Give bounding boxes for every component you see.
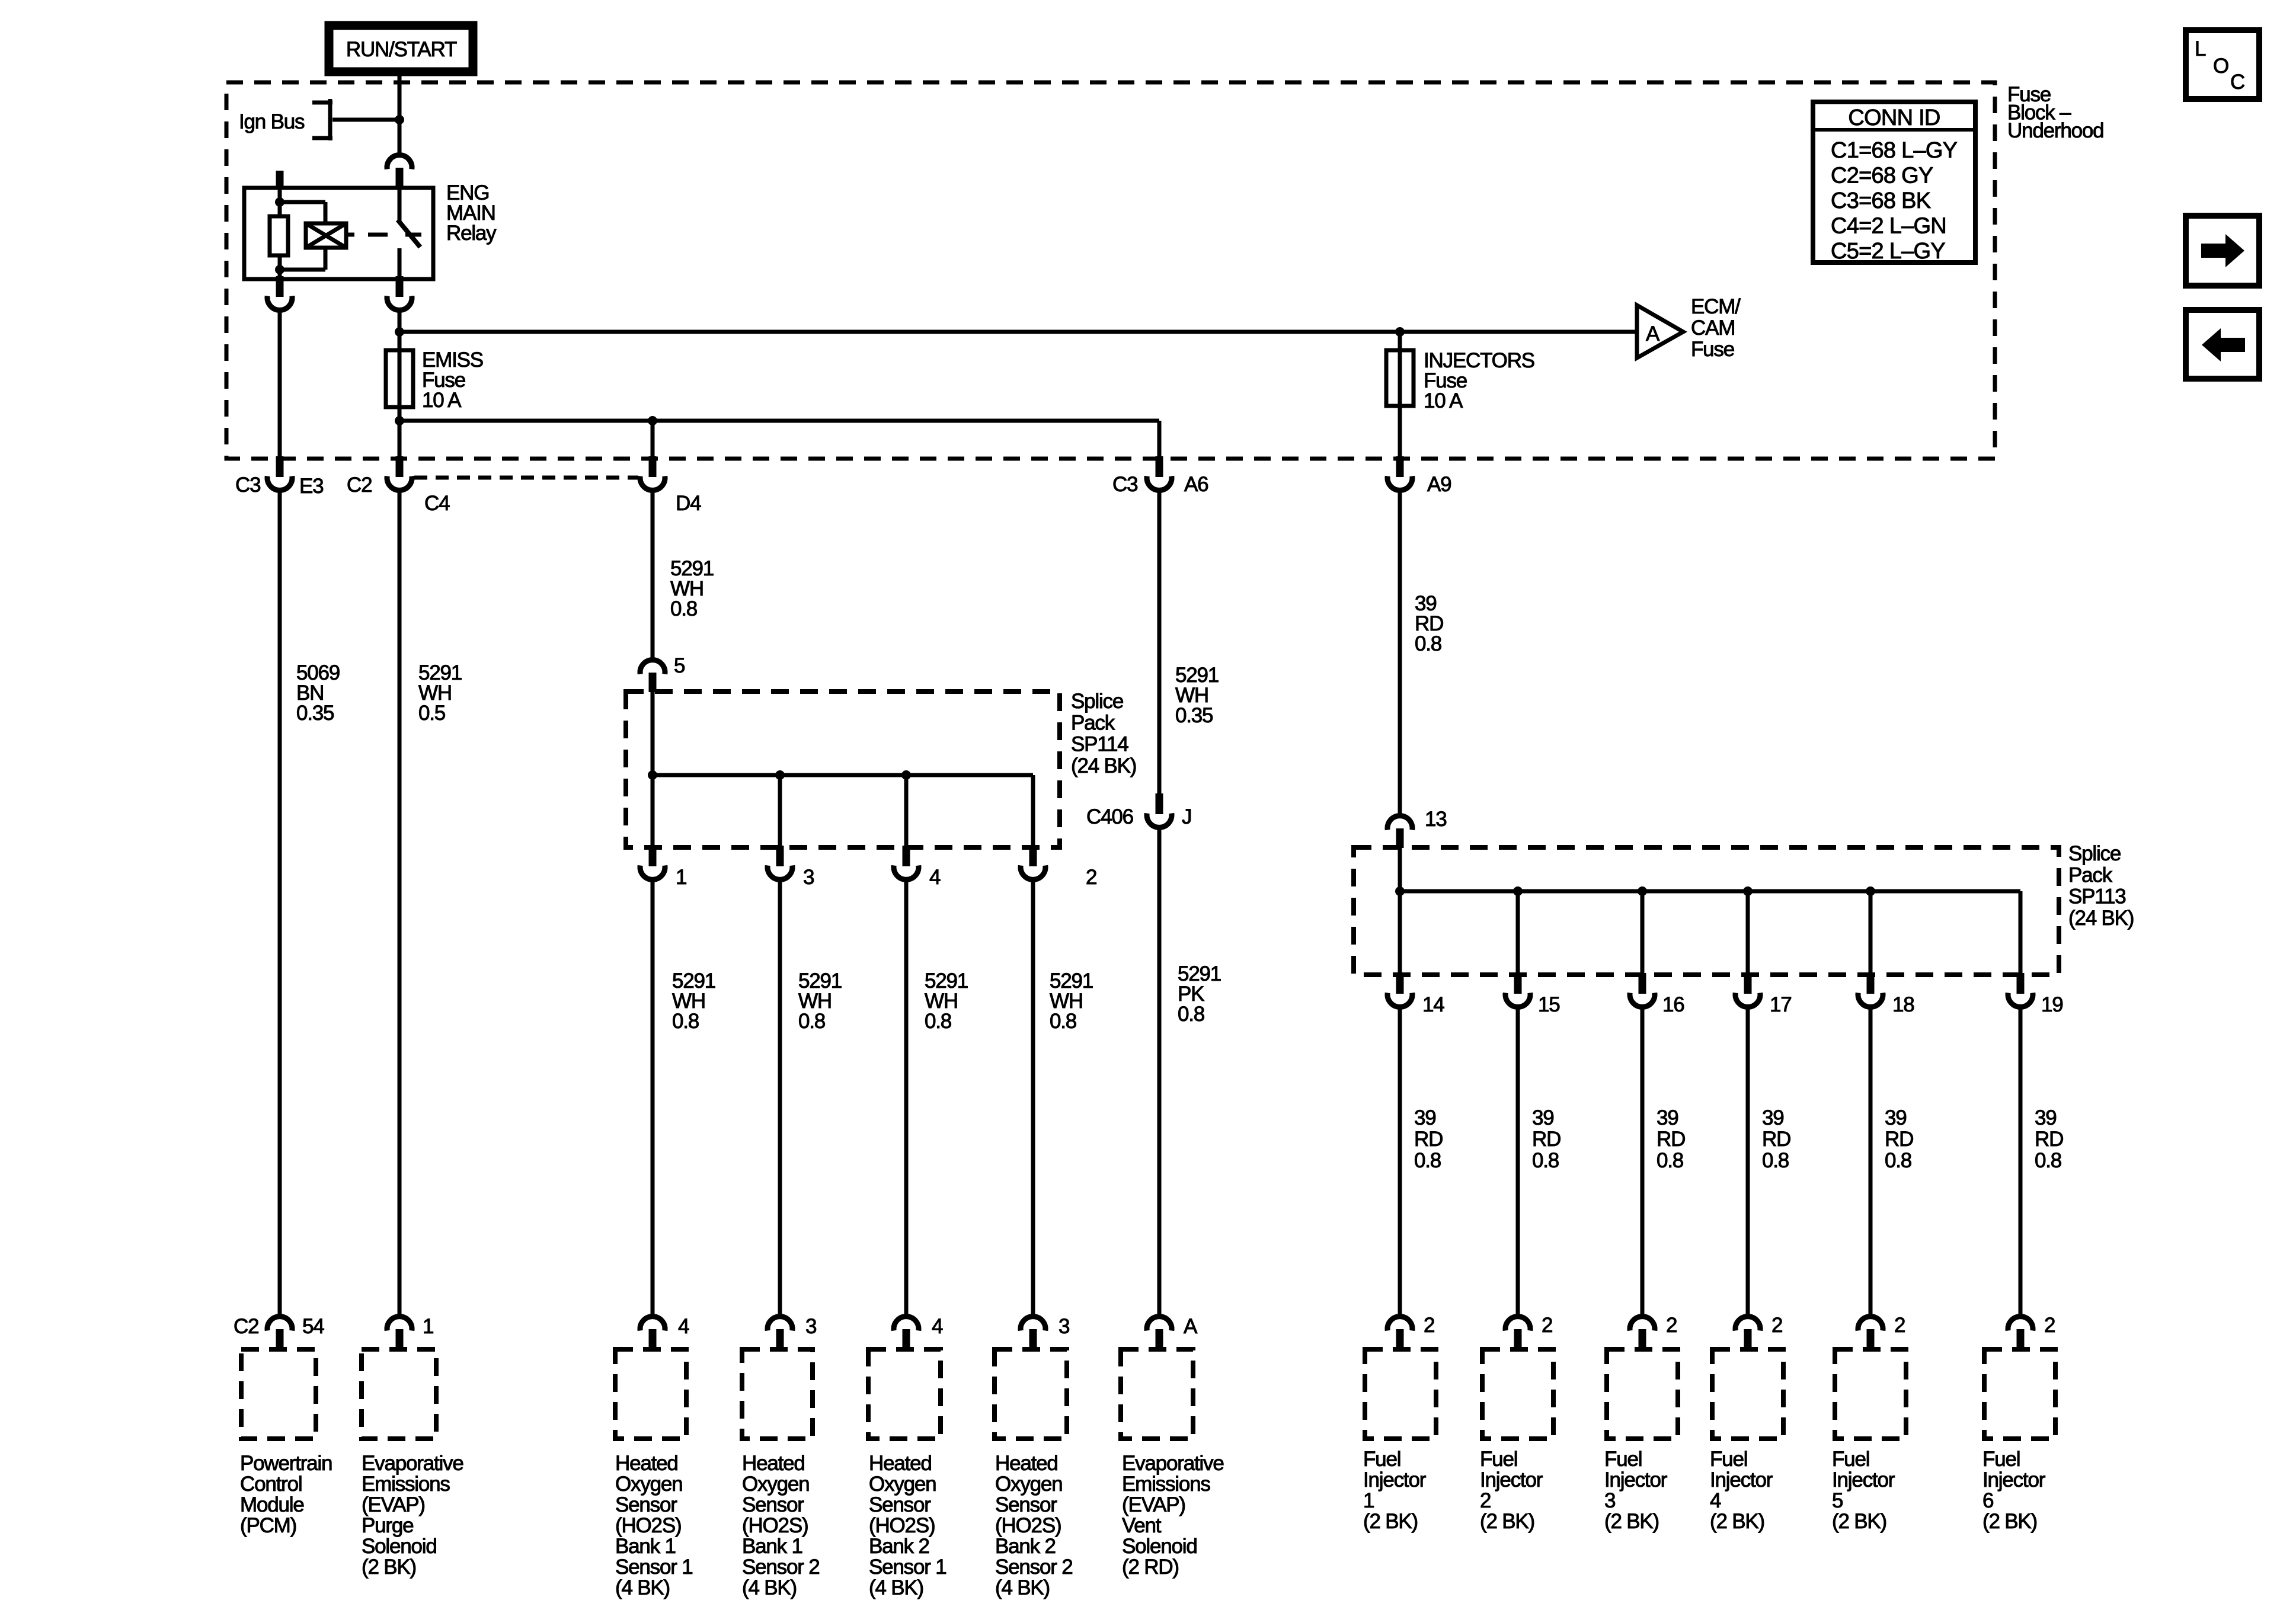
svg-text:(2 RD): (2 RD) <box>1122 1555 1179 1579</box>
label INJECTORS Fuse 10 A <box>1424 349 1534 412</box>
connector pin 2 into fuel injector 1 <box>1387 1317 1412 1350</box>
connector pin 4 into HO2S 1 <box>640 1317 665 1350</box>
svg-text:(24 BK): (24 BK) <box>1071 754 1136 777</box>
svg-text:Fuel: Fuel <box>1710 1448 1747 1471</box>
relay switch lower contact <box>398 248 402 279</box>
wire coil actuator stub <box>346 233 354 237</box>
node SP113 bus junction 18 <box>1866 886 1875 896</box>
wire coil parallel branch bottom <box>280 246 325 270</box>
svg-text:Sensor 1: Sensor 1 <box>615 1555 693 1579</box>
svg-text:Oxygen: Oxygen <box>869 1473 936 1496</box>
label D4 <box>676 492 701 515</box>
resistor inside relay <box>270 216 288 255</box>
svg-text:RD: RD <box>1762 1128 1790 1151</box>
svg-text:Sensor 2: Sensor 2 <box>995 1555 1073 1579</box>
wire INJECTORS fuse feed <box>1398 332 1402 459</box>
svg-text:2: 2 <box>2044 1314 2055 1337</box>
label Fuel Injector 2 (2 BK) <box>1480 1448 1543 1533</box>
load fuel injector 3 dashed box <box>1607 1349 1678 1439</box>
svg-text:C: C <box>2230 71 2244 94</box>
svg-text:(4 BK): (4 BK) <box>742 1576 797 1599</box>
svg-text:Bank 2: Bank 2 <box>995 1535 1056 1558</box>
power feed RUN/START box <box>329 25 473 72</box>
wire 39 RD to fuel injector 2 <box>1516 1008 1520 1317</box>
svg-text:39: 39 <box>1762 1106 1784 1129</box>
svg-text:Fuse: Fuse <box>1691 338 1734 361</box>
label pin 2 (injector 5) <box>1894 1314 1905 1337</box>
connector pin 4 below SP114 <box>894 846 919 879</box>
svg-text:1: 1 <box>423 1315 433 1338</box>
svg-text:C5=2 L–GY: C5=2 L–GY <box>1831 239 1945 264</box>
load fuel injector 1 dashed box <box>1365 1349 1436 1439</box>
label wire 39 RD 0.8 (A9 feed) <box>1415 592 1443 655</box>
svg-text:C4: C4 <box>424 492 450 515</box>
connector pin 13 into SP113 <box>1387 816 1412 848</box>
svg-text:Fuel: Fuel <box>1604 1448 1642 1471</box>
svg-text:Injector: Injector <box>1982 1468 2046 1491</box>
coil winding symbol (box with X) <box>306 223 346 248</box>
svg-text:Bank 1: Bank 1 <box>615 1535 676 1558</box>
label pin 4 <box>929 866 941 889</box>
node junction below EMISS fuse <box>395 416 404 425</box>
svg-text:(HO2S): (HO2S) <box>615 1514 681 1537</box>
label wire 39 RD 0.8 (injector 2) <box>1532 1106 1560 1172</box>
svg-text:1: 1 <box>1363 1489 1374 1512</box>
label Powertrain Control Module (PCM) <box>240 1452 332 1537</box>
fuse block underhood dashed outline <box>226 82 1995 459</box>
label wire 5291 WH 0.8 (HO2S 3) <box>925 969 968 1033</box>
load fuel injector 2 dashed box <box>1482 1349 1553 1439</box>
svg-text:RD: RD <box>1414 1128 1443 1151</box>
svg-text:(2 BK): (2 BK) <box>1604 1510 1659 1533</box>
label wire 39 RD 0.8 (injector 1) <box>1414 1106 1443 1172</box>
label Evaporative Emissions (EVAP) Vent Solenoid (2 RD) <box>1122 1452 1224 1579</box>
svg-text:Heated: Heated <box>995 1452 1058 1475</box>
label pin 3 (HO2S 2) <box>805 1315 816 1338</box>
label C2 (at C4) <box>347 473 372 497</box>
svg-text:J: J <box>1182 805 1191 828</box>
svg-text:C3=68 BK: C3=68 BK <box>1831 188 1931 213</box>
svg-text:Splice: Splice <box>1071 690 1123 713</box>
label Fuel Injector 6 (2 BK) <box>1982 1448 2046 1533</box>
label wire 5291 WH 0.5 <box>418 661 462 725</box>
label wire 5291 WH 0.8 (HO2S 2) <box>798 969 842 1033</box>
svg-text:Solenoid: Solenoid <box>1122 1535 1197 1558</box>
svg-text:(PCM): (PCM) <box>240 1514 296 1537</box>
node coil top junction <box>275 197 284 207</box>
svg-text:2: 2 <box>1542 1314 1552 1337</box>
connector pin 19 below SP113 <box>2008 973 2033 1007</box>
node junction INJECTORS fuse tap <box>1395 327 1405 337</box>
node SP114 bus junction 1 <box>648 770 657 780</box>
svg-text:4: 4 <box>1710 1489 1721 1512</box>
label wire 39 RD 0.8 (injector 4) <box>1762 1106 1790 1172</box>
svg-text:0.8: 0.8 <box>1532 1149 1559 1172</box>
svg-text:Injector: Injector <box>1832 1468 1895 1491</box>
label Fuel Injector 4 (2 BK) <box>1710 1448 1773 1533</box>
svg-text:ECM/: ECM/ <box>1691 295 1741 318</box>
label wire 5291 WH 0.8 (D4 feed) <box>670 557 714 620</box>
label wire 5291 WH 0.8 (HO2S 1) <box>672 969 715 1033</box>
svg-text:Injector: Injector <box>1604 1468 1668 1491</box>
svg-text:4: 4 <box>678 1315 689 1338</box>
label A6 <box>1184 473 1208 496</box>
connector C406 pin J <box>1147 793 1172 827</box>
wire SP114 drop 1 <box>651 775 655 848</box>
svg-text:0.8: 0.8 <box>1050 1010 1076 1033</box>
fuse F INJECTORS <box>1386 350 1414 406</box>
svg-text:Control: Control <box>240 1473 302 1496</box>
label C4 <box>424 492 450 515</box>
connector pin 15 below SP113 <box>1505 973 1530 1007</box>
wire 5291 WH D4 to splice pack <box>651 491 655 659</box>
svg-text:Bank 1: Bank 1 <box>742 1535 802 1558</box>
svg-text:RD: RD <box>1657 1128 1685 1151</box>
connector pin 18 below SP113 <box>1858 973 1883 1007</box>
connector pin 14 below SP113 <box>1387 973 1412 1007</box>
node junction ECM/CAM feed <box>395 327 404 337</box>
label pin 3 (HO2S 4) <box>1059 1315 1069 1338</box>
svg-text:0.8: 0.8 <box>1415 632 1441 655</box>
wire 5069 BN E3 to PCM <box>278 491 282 1317</box>
svg-text:(4 BK): (4 BK) <box>869 1576 923 1599</box>
wire SP113 drop 16 <box>1641 891 1645 975</box>
wire EMISS fuse to lower junction <box>398 405 402 421</box>
svg-text:2: 2 <box>1086 866 1096 889</box>
svg-text:Module: Module <box>240 1493 304 1516</box>
svg-text:0.8: 0.8 <box>672 1010 699 1033</box>
svg-text:Evaporative: Evaporative <box>1122 1452 1224 1475</box>
svg-text:(4 BK): (4 BK) <box>615 1576 670 1599</box>
svg-text:(2 BK): (2 BK) <box>1982 1510 2037 1533</box>
svg-text:CONN ID: CONN ID <box>1848 105 1940 130</box>
wire coil parallel branch top <box>280 202 325 225</box>
wire 39 RD to fuel injector 3 <box>1641 1008 1645 1317</box>
connector pin 16 below SP113 <box>1630 973 1655 1007</box>
splice pack SP113 dashed box <box>1354 847 2059 975</box>
wire SP113 drop 17 <box>1746 891 1750 975</box>
svg-text:16: 16 <box>1662 993 1684 1016</box>
label pin A (EVAP vent) <box>1184 1315 1198 1338</box>
svg-text:18: 18 <box>1892 993 1914 1016</box>
splice pack SP114 dashed box <box>626 692 1060 847</box>
connector pin 3 into HO2S 4 <box>1021 1317 1045 1350</box>
svg-text:A: A <box>1646 322 1660 345</box>
svg-text:17: 17 <box>1770 993 1792 1016</box>
connector pin 1 below SP114 <box>640 846 665 879</box>
label pin 1 <box>676 866 686 889</box>
node SP113 bus junction 16 <box>1638 886 1647 896</box>
svg-text:Fuel: Fuel <box>1480 1448 1517 1471</box>
connector C3 pin A6 <box>1147 456 1172 490</box>
node SP113 bus junction 14 <box>1395 886 1405 896</box>
label C3 (at A6) <box>1112 473 1137 496</box>
wire SP114 drop 3 <box>778 775 782 848</box>
svg-text:RD: RD <box>2035 1128 2063 1151</box>
fuse F EMISS <box>386 350 413 407</box>
svg-text:Oxygen: Oxygen <box>742 1473 809 1496</box>
sensor HO2S Bank 1 Sensor 2 dashed box <box>742 1349 813 1439</box>
svg-text:4: 4 <box>932 1315 943 1338</box>
node SP114 bus junction 4 <box>901 770 911 780</box>
label pin 16 <box>1662 993 1684 1016</box>
connector pin 1 into EVAP purge solenoid <box>387 1317 412 1350</box>
svg-text:Sensor 1: Sensor 1 <box>869 1555 946 1579</box>
svg-text:Bank 2: Bank 2 <box>869 1535 929 1558</box>
svg-text:L: L <box>2195 37 2206 60</box>
svg-text:RD: RD <box>1885 1128 1913 1151</box>
node SP113 bus junction 17 <box>1743 886 1753 896</box>
label Splice Pack SP114 (24 BK) <box>1071 690 1136 777</box>
relay switch blade <box>398 220 420 247</box>
node SP113 bus junction 15 <box>1513 886 1523 896</box>
wire 39 RD to fuel injector 6 <box>2019 1008 2023 1317</box>
svg-text:Sensor: Sensor <box>742 1493 804 1516</box>
table CONN ID <box>1813 102 1975 264</box>
svg-text:C2: C2 <box>347 473 372 497</box>
label pin 17 <box>1770 993 1792 1016</box>
svg-text:0.8: 0.8 <box>1178 1003 1204 1026</box>
dashed actuator linkage <box>368 233 421 237</box>
svg-text:19: 19 <box>2041 993 2063 1016</box>
wire SP113 drop 15 <box>1516 891 1520 975</box>
svg-text:A: A <box>1184 1315 1198 1338</box>
label Heated Oxygen Sensor (HO2S) Bank 1 Sensor 1 (4 BK) <box>615 1452 693 1599</box>
label pin 18 <box>1892 993 1914 1016</box>
wire SP114 drop 2 <box>1031 775 1035 848</box>
svg-text:3: 3 <box>1059 1315 1069 1338</box>
connector pin into ENG MAIN relay (coil side) <box>276 171 284 190</box>
label pin 2 (injector 1) <box>1424 1314 1434 1337</box>
label C3 (at E3) <box>235 473 260 497</box>
label pin 2 (injector 2) <box>1542 1314 1552 1337</box>
label Fuel Injector 5 (2 BK) <box>1832 1448 1895 1533</box>
sensor HO2S Bank 2 Sensor 2 dashed box <box>994 1349 1067 1439</box>
svg-text:Evaporative: Evaporative <box>362 1452 463 1475</box>
connector below relay switch pin <box>387 276 412 310</box>
wire feed line to D4 and A6 <box>399 419 1159 423</box>
svg-text:Vent: Vent <box>1122 1514 1162 1537</box>
svg-text:(2 BK): (2 BK) <box>362 1555 416 1579</box>
svg-text:Oxygen: Oxygen <box>995 1473 1062 1496</box>
svg-text:5: 5 <box>1832 1489 1843 1512</box>
svg-text:C1=68 L–GY: C1=68 L–GY <box>1831 138 1958 163</box>
solenoid EVAP vent dashed box <box>1121 1349 1193 1439</box>
module PCM dashed box <box>241 1349 316 1439</box>
wire 39 RD A9 to splice pack <box>1398 491 1402 815</box>
label pin 19 <box>2041 993 2063 1016</box>
svg-text:1: 1 <box>676 866 686 889</box>
svg-text:0.8: 0.8 <box>2035 1149 2061 1172</box>
svg-text:C4=2 L–GN: C4=2 L–GN <box>1831 214 1946 239</box>
wire A6 corner down to connector <box>1157 421 1162 459</box>
wire 39 RD to fuel injector 4 <box>1746 1008 1750 1317</box>
svg-text:0.8: 0.8 <box>925 1010 951 1033</box>
svg-text:Fuel: Fuel <box>1363 1448 1400 1471</box>
label pin 5 <box>674 654 685 677</box>
label Splice Pack SP113 (24 BK) <box>2068 842 2134 930</box>
svg-text:CAM: CAM <box>1691 316 1735 340</box>
svg-text:54: 54 <box>302 1315 324 1338</box>
svg-text:RD: RD <box>1532 1128 1560 1151</box>
connector C2 pin C4 <box>387 456 412 490</box>
label pin 3 <box>803 866 814 889</box>
connector below relay coil pin <box>267 276 292 310</box>
connector pin 3 below SP114 <box>768 846 792 879</box>
svg-text:Heated: Heated <box>742 1452 805 1475</box>
relay K ENG MAIN Relay box <box>244 188 433 279</box>
dashed tie line connector C4 to D4 <box>414 476 638 480</box>
wire 5291 WH SP114 to HO2S sensor 4 <box>1031 881 1035 1317</box>
connector pin A9 <box>1387 456 1412 490</box>
connector pin 17 below SP113 <box>1735 973 1760 1007</box>
svg-text:(2 BK): (2 BK) <box>1710 1510 1764 1533</box>
svg-text:0.5: 0.5 <box>418 702 445 725</box>
wire SP113 drop 14 <box>1398 891 1402 975</box>
svg-text:(HO2S): (HO2S) <box>995 1514 1061 1537</box>
svg-text:Sensor: Sensor <box>615 1493 677 1516</box>
load fuel injector 6 dashed box <box>1984 1349 2055 1439</box>
svg-text:3: 3 <box>805 1315 816 1338</box>
node SP114 bus junction 3 <box>775 770 785 780</box>
wire SP114 entry to bus <box>651 692 655 775</box>
svg-text:C2: C2 <box>234 1315 258 1338</box>
wire 39 RD to fuel injector 5 <box>1869 1008 1873 1317</box>
connector pin D4 <box>640 456 665 490</box>
svg-text:Sensor 2: Sensor 2 <box>742 1555 820 1579</box>
svg-text:14: 14 <box>1422 993 1444 1016</box>
svg-text:Powertrain: Powertrain <box>240 1452 332 1475</box>
svg-text:2: 2 <box>1480 1489 1491 1512</box>
Ign Bus bus-bar symbol <box>312 99 332 140</box>
svg-text:39: 39 <box>2035 1106 2057 1129</box>
svg-text:(2 BK): (2 BK) <box>1832 1510 1886 1533</box>
label ECM/CAM Fuse <box>1691 295 1741 361</box>
relay switch fixed contact <box>398 188 402 221</box>
wire junction to EMISS fuse <box>398 332 402 422</box>
svg-text:A6: A6 <box>1184 473 1208 496</box>
svg-text:Pack: Pack <box>2068 863 2113 886</box>
label Heated Oxygen Sensor (HO2S) Bank 2 Sensor 1 (4 BK) <box>869 1452 946 1599</box>
svg-text:Heated: Heated <box>615 1452 678 1475</box>
svg-text:C2=68 GY: C2=68 GY <box>1831 164 1933 188</box>
svg-text:2: 2 <box>1424 1314 1434 1337</box>
wire relay switch pin down to ECM junction <box>398 311 402 332</box>
label Heated Oxygen Sensor (HO2S) Bank 1 Sensor 2 (4 BK) <box>742 1452 820 1599</box>
relay coil wire upper segment <box>278 188 282 218</box>
svg-text:Fuel: Fuel <box>1832 1448 1869 1471</box>
svg-text:0.8: 0.8 <box>798 1010 825 1033</box>
connector pin A into EVAP vent solenoid <box>1147 1317 1172 1350</box>
svg-text:13: 13 <box>1425 808 1447 831</box>
label wire 39 RD 0.8 (injector 6) <box>2035 1106 2063 1172</box>
svg-text:SP113: SP113 <box>2068 885 2126 908</box>
fuse symbol ECM/CAM (triangle A) <box>1637 305 1683 358</box>
svg-text:Emissions: Emissions <box>1122 1473 1210 1496</box>
svg-text:2: 2 <box>1666 1314 1677 1337</box>
svg-text:Fuel: Fuel <box>1982 1448 2020 1471</box>
svg-text:A9: A9 <box>1427 473 1451 496</box>
wire 5291 WH SP114 to HO2S sensor 1 <box>651 881 655 1317</box>
svg-text:Oxygen: Oxygen <box>615 1473 682 1496</box>
svg-text:2: 2 <box>1771 1314 1782 1337</box>
wire Ign Bus to junction <box>332 118 399 122</box>
label pin 2 (injector 6) <box>2044 1314 2055 1337</box>
svg-text:E3: E3 <box>299 475 323 498</box>
label Heated Oxygen Sensor (HO2S) Bank 2 Sensor 2 (4 BK) <box>995 1452 1073 1599</box>
connector pin 2 into fuel injector 4 <box>1735 1317 1760 1350</box>
svg-text:39: 39 <box>1657 1106 1678 1129</box>
label pin 15 <box>1538 993 1560 1016</box>
svg-text:Purge: Purge <box>362 1514 413 1537</box>
label pin 4 (HO2S 1) <box>678 1315 689 1338</box>
connector pin 2 into fuel injector 2 <box>1505 1317 1530 1350</box>
svg-text:39: 39 <box>1414 1106 1436 1129</box>
solenoid EVAP purge dashed box <box>362 1349 436 1439</box>
svg-text:(EVAP): (EVAP) <box>1122 1493 1185 1516</box>
wire SP113 drop 18 <box>1869 891 1873 975</box>
connector pin 2 into fuel injector 6 <box>2008 1317 2033 1350</box>
load fuel injector 5 dashed box <box>1835 1349 1906 1439</box>
svg-text:10 A: 10 A <box>1424 389 1463 412</box>
svg-text:0.8: 0.8 <box>670 597 697 620</box>
svg-text:O: O <box>2213 55 2228 78</box>
label wire 5291 PK 0.8 <box>1178 962 1221 1026</box>
wire 39 RD to fuel injector 1 <box>1398 1008 1402 1317</box>
label EMISS Fuse 10 A <box>422 348 483 412</box>
svg-text:(4 BK): (4 BK) <box>995 1576 1050 1599</box>
label pin 13 <box>1425 808 1447 831</box>
svg-text:6: 6 <box>1982 1489 1993 1512</box>
label pin 2 (injector 3) <box>1666 1314 1677 1337</box>
relay coil wire lower segment <box>278 254 282 279</box>
svg-text:0.35: 0.35 <box>1175 704 1213 727</box>
label C406 <box>1086 805 1133 828</box>
connector C2 pin 54 into PCM <box>267 1317 292 1350</box>
wire 5291 WH SP114 to HO2S sensor 3 <box>904 881 909 1317</box>
label pin 2 (injector 4) <box>1771 1314 1782 1337</box>
svg-text:39: 39 <box>1532 1106 1554 1129</box>
svg-text:Injector: Injector <box>1710 1468 1773 1491</box>
wire ECM/CAM fuse feed line <box>399 330 1637 334</box>
sensor HO2S Bank 2 Sensor 1 dashed box <box>868 1349 941 1439</box>
svg-text:Pack: Pack <box>1071 711 1115 734</box>
svg-text:0.8: 0.8 <box>1885 1149 1911 1172</box>
svg-text:4: 4 <box>929 866 941 889</box>
label pin 2 <box>1086 866 1096 889</box>
label wire 39 RD 0.8 (injector 5) <box>1885 1106 1913 1172</box>
svg-text:5: 5 <box>674 654 685 677</box>
svg-text:RUN/START: RUN/START <box>346 38 457 61</box>
svg-text:Sensor: Sensor <box>995 1493 1057 1516</box>
svg-text:Emissions: Emissions <box>362 1473 450 1496</box>
label A9 <box>1427 473 1451 496</box>
svg-text:C3: C3 <box>235 473 260 497</box>
svg-text:C3: C3 <box>1112 473 1137 496</box>
label pin 1 (EVAP purge) <box>423 1315 433 1338</box>
load fuel injector 4 dashed box <box>1712 1349 1783 1439</box>
wire 5291 WH SP114 to HO2S sensor 2 <box>778 881 782 1317</box>
svg-text:Splice: Splice <box>2068 842 2121 865</box>
svg-text:0.8: 0.8 <box>1414 1149 1441 1172</box>
svg-text:10 A: 10 A <box>422 389 462 412</box>
wire 5291 PK C406 to EVAP vent solenoid <box>1157 828 1162 1317</box>
label pin 4 (HO2S 3) <box>932 1315 943 1338</box>
connector C3 pin E3 <box>267 456 292 490</box>
legend LOC box <box>2186 30 2259 99</box>
node coil bottom junction <box>275 265 284 274</box>
wire 5291 WH A6 to C406 <box>1157 491 1162 795</box>
